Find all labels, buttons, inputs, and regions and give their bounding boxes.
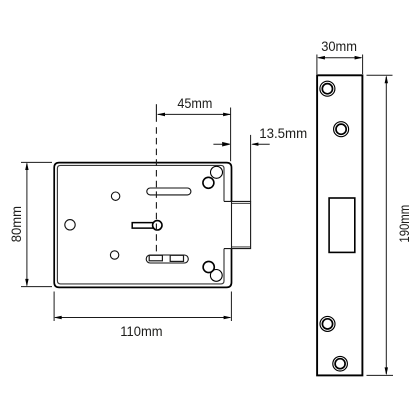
bolt protrusion xyxy=(224,201,251,248)
80mm extension line bottom xyxy=(21,286,52,288)
keyhole circle xyxy=(153,221,162,230)
80mm dimension line xyxy=(26,164,28,286)
110mm dimension line xyxy=(55,317,230,319)
faceplate screw hole 2 outer xyxy=(334,122,349,137)
30mm extension line right xyxy=(362,55,364,75)
45mm arrow left xyxy=(157,113,165,117)
corner screw hole top-right thick xyxy=(203,177,214,188)
faceplate screw hole 1 inner xyxy=(322,84,332,94)
faceplate screw hole 1 outer xyxy=(320,81,335,96)
30mm arrow left xyxy=(317,56,325,60)
faceplate screw hole 2 inner xyxy=(336,124,346,134)
corner screw hole bottom-right thick xyxy=(203,261,214,272)
190mm extension line bottom xyxy=(367,374,394,376)
80mm arrow bottom xyxy=(25,279,28,287)
faceplate screw hole 3 outer xyxy=(320,316,335,331)
190mm extension line top xyxy=(367,74,393,76)
45mm dimension line xyxy=(158,113,231,115)
dashed centerline xyxy=(155,104,157,122)
svg-text:80mm: 80mm xyxy=(8,206,24,242)
110mm extension line right xyxy=(230,292,232,322)
lower slot stadium xyxy=(146,255,188,263)
45mm arrow right xyxy=(223,113,231,117)
80mm extension line top xyxy=(21,161,52,163)
svg-text:13.5mm: 13.5mm xyxy=(259,125,307,141)
fixing hole left xyxy=(65,220,75,230)
45mm extension line xyxy=(230,108,232,162)
svg-text:190mm: 190mm xyxy=(396,205,412,243)
corner screw hole bottom-right thin xyxy=(210,270,222,282)
13.5mm dimension right arrow xyxy=(252,143,269,145)
faceplate outline xyxy=(317,75,362,375)
bolt inner face lines xyxy=(232,203,251,247)
110mm arrow right xyxy=(224,316,232,320)
svg-text:30mm: 30mm xyxy=(321,38,357,54)
faceplate screw hole 4 outer xyxy=(333,356,348,371)
190mm dimension line xyxy=(385,77,387,374)
svg-text:45mm: 45mm xyxy=(177,95,212,111)
110mm extension line left xyxy=(53,292,55,322)
faceplate bolt cutout xyxy=(329,198,355,252)
30mm dimension line xyxy=(318,57,361,59)
lower slot left notch xyxy=(149,255,162,260)
13.5mm extension line xyxy=(250,135,252,202)
fixing hole upper xyxy=(111,192,119,200)
lower slot right notch xyxy=(170,255,183,261)
13.5mm dimension left arrow xyxy=(213,143,229,146)
top slot xyxy=(147,188,191,195)
faceplate screw hole 3 inner xyxy=(322,319,332,329)
110mm arrow left xyxy=(54,316,62,320)
faceplate screw hole 4 inner xyxy=(335,359,345,369)
svg-text:110mm: 110mm xyxy=(120,323,162,339)
keyhole tail xyxy=(132,223,154,229)
80mm arrow top xyxy=(25,162,28,170)
corner screw hole top-right thin xyxy=(211,166,223,178)
lock case inner border line xyxy=(57,165,224,284)
190mm arrow top xyxy=(385,75,388,83)
30mm arrow right xyxy=(355,56,363,60)
30mm extension line left xyxy=(316,55,318,75)
lock case outer body xyxy=(54,163,231,288)
190mm arrow bottom xyxy=(385,367,388,375)
fixing hole lower xyxy=(110,251,118,259)
